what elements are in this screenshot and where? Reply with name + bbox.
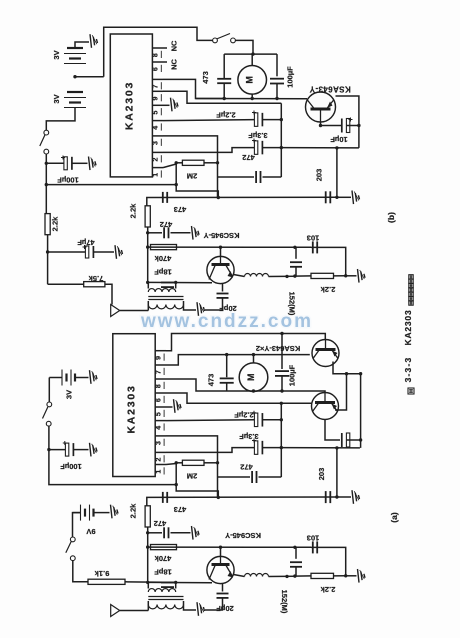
svg-text:8: 8 [155, 384, 162, 388]
node column/2.2uF (a) [280, 418, 283, 421]
capacitor C8b 473 motor [223, 54, 225, 78]
wire 9.1k to transformer node [125, 581, 176, 584]
transistor Q2a2 KSC945-Y [207, 556, 234, 583]
ground (472 row) [192, 226, 194, 240]
wire secondary left [147, 301, 149, 311]
wire battery B1 top to ground [75, 42, 89, 48]
node column/3.3uF [280, 146, 283, 149]
node vert-cap bottom [293, 274, 296, 277]
svg-text:203: 203 [317, 468, 326, 481]
pin 6 U1a [155, 392, 166, 394]
wire rail corner to 7.5k [48, 283, 84, 285]
pin 3 U1b [152, 135, 163, 137]
pin 3 U1a [155, 435, 166, 437]
ground (B3) [90, 370, 92, 384]
node base/bus b [219, 246, 222, 249]
node 473 row right (a) [335, 495, 338, 498]
transistor Q1a KSA643-Y [312, 340, 339, 367]
wire 18pF/transformer row [148, 281, 212, 283]
wire 7.5k to earphone [105, 284, 112, 304]
wire secondary right to ground [184, 301, 197, 310]
pin 5 U1a [155, 406, 166, 408]
switch S2a [70, 537, 75, 542]
earphone (a) [111, 605, 120, 617]
wire Q2a bottom to 10uF [325, 420, 340, 441]
circuit (b) battery B1 3V [67, 47, 83, 49]
wire 103 corner down [311, 247, 346, 275]
capacitor C6a 203 [325, 491, 327, 503]
capacitor C13a 18pF [161, 582, 174, 584]
node xfmr/base row (a) [174, 581, 177, 584]
node rail/xfmr [146, 281, 149, 284]
wire midpoint to Vcc riser [75, 76, 104, 78]
wire B3 to switch S1a [48, 378, 50, 403]
svg-text:3V: 3V [52, 94, 61, 103]
svg-text:6: 6 [153, 67, 160, 71]
pin 8 U1a [155, 378, 166, 380]
resistor R6b 2.2k out [295, 275, 311, 277]
node 100uF row (a) [47, 448, 50, 451]
wire Q1b emitter rail [336, 96, 359, 148]
resistor R3a 2M [176, 462, 182, 464]
svg-text:4: 4 [153, 126, 160, 130]
pin 2 U1b [152, 151, 163, 153]
node battery midpoint [73, 75, 76, 78]
resistor R6a 2.2k out [295, 575, 311, 577]
svg-text:3.3µF: 3.3µF [239, 432, 259, 441]
svg-text:(a): (a) [389, 512, 399, 523]
svg-text:1: 1 [153, 173, 160, 177]
node xfmr/base row [174, 281, 177, 284]
node vert-cap bottom (a) [293, 574, 296, 577]
wire motor bottom bus [196, 98, 308, 100]
capacitor C9a 100uF [281, 334, 283, 370]
switch S2b [44, 130, 49, 135]
battery B2 3V [67, 91, 83, 93]
node column top (a) [280, 402, 283, 405]
node right-net corner (a) [335, 446, 338, 449]
capacitor C13b 18pF [161, 282, 174, 284]
node 100uF top (a) [280, 332, 283, 335]
ground (C1b) [89, 157, 91, 171]
resistor R2b 7.5k [84, 282, 105, 287]
wire pin4 to 2.2uF [166, 419, 255, 422]
node out [344, 274, 347, 277]
capacitor C2b 47uF [48, 251, 87, 253]
svg-text:KSA643-Y: KSA643-Y [309, 85, 351, 94]
wire cascade to Q2a [335, 374, 347, 410]
IC U1a KA2303 [113, 334, 155, 477]
wire left rail [45, 154, 47, 214]
capacitor C5a 473 [162, 492, 164, 503]
svg-text:470k: 470k [154, 254, 172, 263]
pin 7 U1b [152, 78, 163, 80]
earphone (b) [111, 305, 120, 317]
svg-text:2.2k: 2.2k [129, 503, 138, 518]
ground (battery B1) [90, 34, 92, 48]
transistor Q2b KSC945-Y [207, 256, 234, 283]
svg-text:47µF: 47µF [77, 238, 95, 247]
svg-text:100µF: 100µF [57, 176, 79, 185]
wire oscillator top bus (a) [148, 546, 311, 548]
svg-text:473: 473 [201, 71, 210, 84]
IC U1b KA2303 [110, 34, 152, 177]
svg-text:9: 9 [153, 96, 160, 100]
pin 7 U1a [155, 364, 166, 366]
transformer T1a [148, 596, 183, 598]
capacitor C8a 473 motor [226, 355, 228, 378]
svg-text:9: 9 [155, 356, 162, 360]
node out (a) [344, 574, 347, 577]
battery B3 3V (a) [49, 377, 62, 379]
capacitor C1b 100uF [46, 162, 66, 164]
node motor/bus [251, 97, 254, 100]
capacitor C1a 100uF [49, 449, 68, 451]
wire pin1 drop (a) [176, 463, 218, 498]
resistor R3b 2M [176, 162, 182, 164]
svg-text:103: 103 [307, 234, 320, 243]
capacitor C14b 20pF [222, 284, 224, 292]
wire pin3 to 2M junction (a) [166, 436, 218, 498]
capacitor C7b 472 column [218, 176, 255, 178]
capacitor C14a 20pF [222, 584, 224, 592]
node rail/xfmr (a) [146, 581, 149, 584]
pin 9 U1b [152, 90, 163, 92]
transistor Q2a KSA643-Y [312, 393, 339, 420]
svg-text:473: 473 [174, 505, 187, 514]
wire pin1 net [46, 184, 175, 186]
svg-text:7.5k: 7.5k [88, 274, 103, 283]
wire column to right net [281, 147, 359, 149]
svg-text:472: 472 [240, 463, 253, 472]
wire column to right rail (a) [281, 447, 360, 449]
wire secondary left (a) [147, 601, 149, 611]
capacitor C11b 103 [312, 241, 314, 253]
svg-text:6: 6 [155, 398, 162, 402]
svg-text:2: 2 [153, 158, 160, 162]
pin 9 U1a [155, 350, 166, 352]
node switch feed [251, 52, 254, 55]
capacitor C3b 2.2uF [254, 113, 257, 127]
node right-net corner [335, 146, 338, 149]
svg-text:2M: 2M [187, 172, 197, 181]
node 2M right (a) [216, 461, 219, 464]
ground (472 row a) [192, 526, 194, 540]
wire pin1 to 2M (a) [166, 464, 176, 465]
wire rail mid (a) [147, 527, 149, 582]
resistor R5a 2.2k [145, 506, 150, 527]
capacitor C15a interstage [295, 547, 297, 559]
svg-text:20pF: 20pF [216, 604, 234, 613]
capacitor C9b 100uF [276, 54, 278, 76]
pin 2 U1a [155, 451, 166, 453]
node column/3.3uF (a) [280, 446, 283, 449]
node motor top (a) [252, 353, 255, 356]
svg-text:9.1k: 9.1k [94, 569, 109, 578]
capacitor C11a 103 [312, 541, 314, 553]
wire Q2b base up [220, 247, 222, 256]
node pin1 net (a) [175, 483, 178, 486]
inductor L1a [234, 575, 245, 577]
wire pin9 to Q1a collector line [166, 334, 325, 351]
svg-text:KA2303: KA2303 [403, 310, 413, 346]
svg-text:KA2303: KA2303 [124, 81, 136, 130]
wire 473 row [147, 197, 337, 205]
inductor L1b [234, 275, 245, 277]
node motor bottom (a) [252, 389, 255, 392]
ground (pin5) [171, 98, 173, 112]
wire switch to 100uF row [48, 426, 50, 450]
pin 6 U1b [152, 61, 167, 63]
pin 4 U1a [155, 420, 166, 422]
node 10uF/rail (a) [359, 438, 362, 441]
node 473 top (a) [225, 353, 228, 356]
capacitor C15b interstage [295, 247, 297, 258]
motor M1b [251, 54, 253, 65]
wire pin1 drop to 473 row [176, 163, 218, 198]
svg-text:KSA643-Y×2: KSA643-Y×2 [256, 344, 300, 353]
wire 473 row (a) [147, 497, 337, 506]
figure caption [408, 388, 414, 394]
wire earphone to transformer (a) [120, 610, 149, 612]
node 473 row right [335, 196, 338, 199]
svg-text:2M: 2M [187, 472, 197, 481]
svg-text:KSC945-Y: KSC945-Y [225, 531, 261, 540]
capacitor C4b 3.3uF [254, 141, 257, 155]
wire rail to 47uF row [47, 235, 49, 285]
node column/2.2uF [280, 118, 283, 121]
svg-text:100µF: 100µF [286, 66, 295, 88]
pin 8 U1b [152, 47, 167, 49]
wire pin8 to lower bus [166, 379, 325, 393]
node cap/bus b [293, 246, 296, 249]
svg-text:3: 3 [155, 441, 162, 445]
node base/bus a [219, 546, 222, 549]
ground (secondary a) [197, 602, 199, 616]
node 47uF row [46, 250, 49, 253]
wire right rail (a) [360, 374, 362, 448]
wire Q1a emitter to cascade [333, 362, 361, 374]
svg-text:103: 103 [307, 534, 320, 543]
wire 18pF/transformer row (a) [148, 581, 212, 583]
switch S1b [213, 38, 218, 43]
node 473row/pin3 (a) [217, 496, 220, 499]
resistor R1b 2.2k [45, 214, 50, 235]
node cap/bus a [293, 546, 296, 549]
svg-text:KA2303: KA2303 [126, 384, 138, 433]
wire pin3 to 2M junction [163, 136, 218, 198]
resistor R5b 2.2k [145, 206, 150, 227]
node pin1/2M (a) [175, 461, 178, 464]
svg-text:2.2k: 2.2k [320, 585, 335, 594]
wire B4 to switch S2a [73, 513, 81, 537]
wire pin2 to 3.3uF [163, 148, 255, 153]
svg-text:(b): (b) [386, 212, 396, 223]
switch S1a [47, 402, 52, 407]
svg-text:2: 2 [155, 458, 162, 462]
node 100uF row [45, 162, 48, 165]
ground (output a) [346, 575, 357, 577]
node pin1/2M [175, 161, 178, 164]
wire Q1b base down [320, 122, 322, 126]
svg-text:18pF: 18pF [154, 268, 172, 277]
wire pin9 to cap column [163, 91, 281, 103]
svg-text:5: 5 [153, 110, 160, 114]
svg-text:152(M): 152(M) [280, 590, 289, 614]
ground (C2b) [115, 245, 117, 259]
wire 103 corner down (a) [311, 547, 346, 575]
wire switch to 9.1k [73, 561, 88, 582]
svg-text:NC: NC [170, 59, 179, 70]
svg-text:472: 472 [154, 519, 167, 528]
capacitor C7a 472 column [218, 476, 251, 478]
svg-text:www.cndzz.com: www.cndzz.com [140, 311, 313, 332]
svg-text:470k: 470k [154, 554, 172, 563]
svg-text:3.3µF: 3.3µF [248, 131, 268, 140]
svg-text:8: 8 [153, 53, 160, 57]
capacitor C3a 2.2uF [254, 413, 257, 427]
resistor R4b 470k [151, 245, 177, 250]
node cascade [345, 372, 348, 375]
node rail/bus a [146, 545, 149, 548]
svg-text:1: 1 [155, 470, 162, 474]
svg-text:472: 472 [160, 220, 173, 229]
wire Vcc riser to top rail [104, 27, 213, 76]
svg-text:203: 203 [315, 169, 324, 182]
node 100uF bottom (a) [280, 389, 283, 392]
svg-text:2.2k: 2.2k [320, 285, 335, 294]
node rail/472 row [146, 231, 149, 234]
wire pin4 to 2.2uF [163, 120, 255, 121]
wire pin7 to W1 bus [166, 355, 310, 365]
svg-text:100µF: 100µF [288, 364, 297, 386]
svg-text:7: 7 [155, 370, 162, 374]
node 473 row / pin3 column [217, 196, 220, 199]
svg-text:3V: 3V [52, 50, 61, 59]
pin 1 U1a [155, 464, 166, 466]
wire earphone to transformer [120, 310, 149, 312]
battery B4 9V [73, 512, 81, 514]
svg-text:7: 7 [153, 85, 160, 89]
transformer T1b [148, 296, 183, 298]
wire pin5 to ground [166, 406, 173, 408]
wire right net drop [336, 148, 338, 197]
capacitor C6b 203 [325, 191, 327, 203]
ground (473 row a) [337, 496, 351, 498]
svg-text:4: 4 [155, 426, 162, 430]
capacitor C12b 472 [148, 232, 162, 234]
motor M1a [253, 355, 255, 363]
wire right net drop (a) [336, 448, 338, 497]
node rail/472 row (a) [146, 531, 149, 534]
wire oscillator top bus (b) [148, 246, 311, 248]
resistor R1a 9.1k [88, 579, 125, 584]
wire pin7 to motor bottom bus [163, 79, 223, 98]
svg-text:3: 3 [153, 141, 160, 145]
wire pin6 to column row [166, 393, 312, 403]
node 473/bus [223, 97, 226, 100]
svg-text:10µF: 10µF [330, 135, 348, 144]
node pin1 drop on pin1 net [175, 183, 178, 186]
ground (pin5 a) [174, 399, 176, 413]
node 100uF/bus [275, 97, 278, 100]
svg-text:473: 473 [174, 205, 187, 214]
svg-text:472: 472 [242, 153, 255, 162]
svg-text:3-3-3: 3-3-3 [403, 357, 413, 383]
wire rail mid (b) [147, 227, 149, 282]
svg-text:473: 473 [207, 374, 216, 387]
node coil right (a) [285, 575, 288, 578]
node rail/bus b [146, 245, 149, 248]
wire rail to pin1 net (a) [49, 450, 176, 485]
svg-text:M: M [246, 373, 256, 381]
svg-text:5: 5 [155, 412, 162, 416]
node base/10uF [319, 124, 322, 127]
wire motor top bus [224, 53, 277, 55]
wire 2.2uF to column [262, 119, 281, 121]
svg-text:NC: NC [170, 40, 179, 51]
capacitor C12a 472 [148, 532, 162, 534]
svg-text:100µF: 100µF [60, 462, 82, 471]
wire pin5 to ground [163, 104, 170, 106]
capacitor C10a 10uF [346, 433, 349, 447]
wire pin2 to 3.3uF (a) [166, 448, 255, 453]
ground (B4) [111, 505, 113, 519]
capacitor C4a 3.3uF [254, 441, 257, 455]
ground (473 row) [337, 196, 351, 198]
node 2M right [216, 161, 219, 164]
capacitor C5b 473 [162, 192, 164, 203]
pin 5 U1b [152, 104, 163, 106]
node 10uF/rail [357, 124, 360, 127]
wire Q2a2 base up [220, 547, 222, 556]
svg-text:2.2k: 2.2k [129, 203, 138, 218]
svg-text:M: M [245, 76, 255, 84]
capacitor C10b 10uF [321, 125, 343, 127]
svg-text:9V: 9V [86, 527, 95, 536]
node rail top (a) [359, 372, 362, 375]
ground (C1a) [90, 443, 92, 457]
node coil right [285, 275, 288, 278]
wire pin1 to 2M [163, 164, 176, 168]
wire battery B2 to switch S2b [46, 108, 75, 131]
svg-text:2.2µF: 2.2µF [216, 111, 236, 120]
pin 1 U1b [152, 167, 163, 169]
svg-text:3V: 3V [65, 390, 74, 399]
svg-text:18pF: 18pF [154, 568, 172, 577]
transistor Q1b KSA643-Y [306, 92, 336, 122]
pin 4 U1b [152, 120, 163, 122]
ground (output b) [346, 275, 357, 277]
node pin1 feed [45, 183, 48, 186]
wire switch to motor bus [235, 40, 253, 54]
resistor R4a 470k [151, 545, 177, 550]
wire secondary right to ground (a) [184, 601, 197, 610]
ground (secondary) [197, 302, 199, 316]
svg-text:2.2k: 2.2k [51, 216, 60, 231]
svg-text:KSC945-Y: KSC945-Y [204, 231, 240, 240]
svg-text:2.2µF: 2.2µF [234, 411, 254, 420]
